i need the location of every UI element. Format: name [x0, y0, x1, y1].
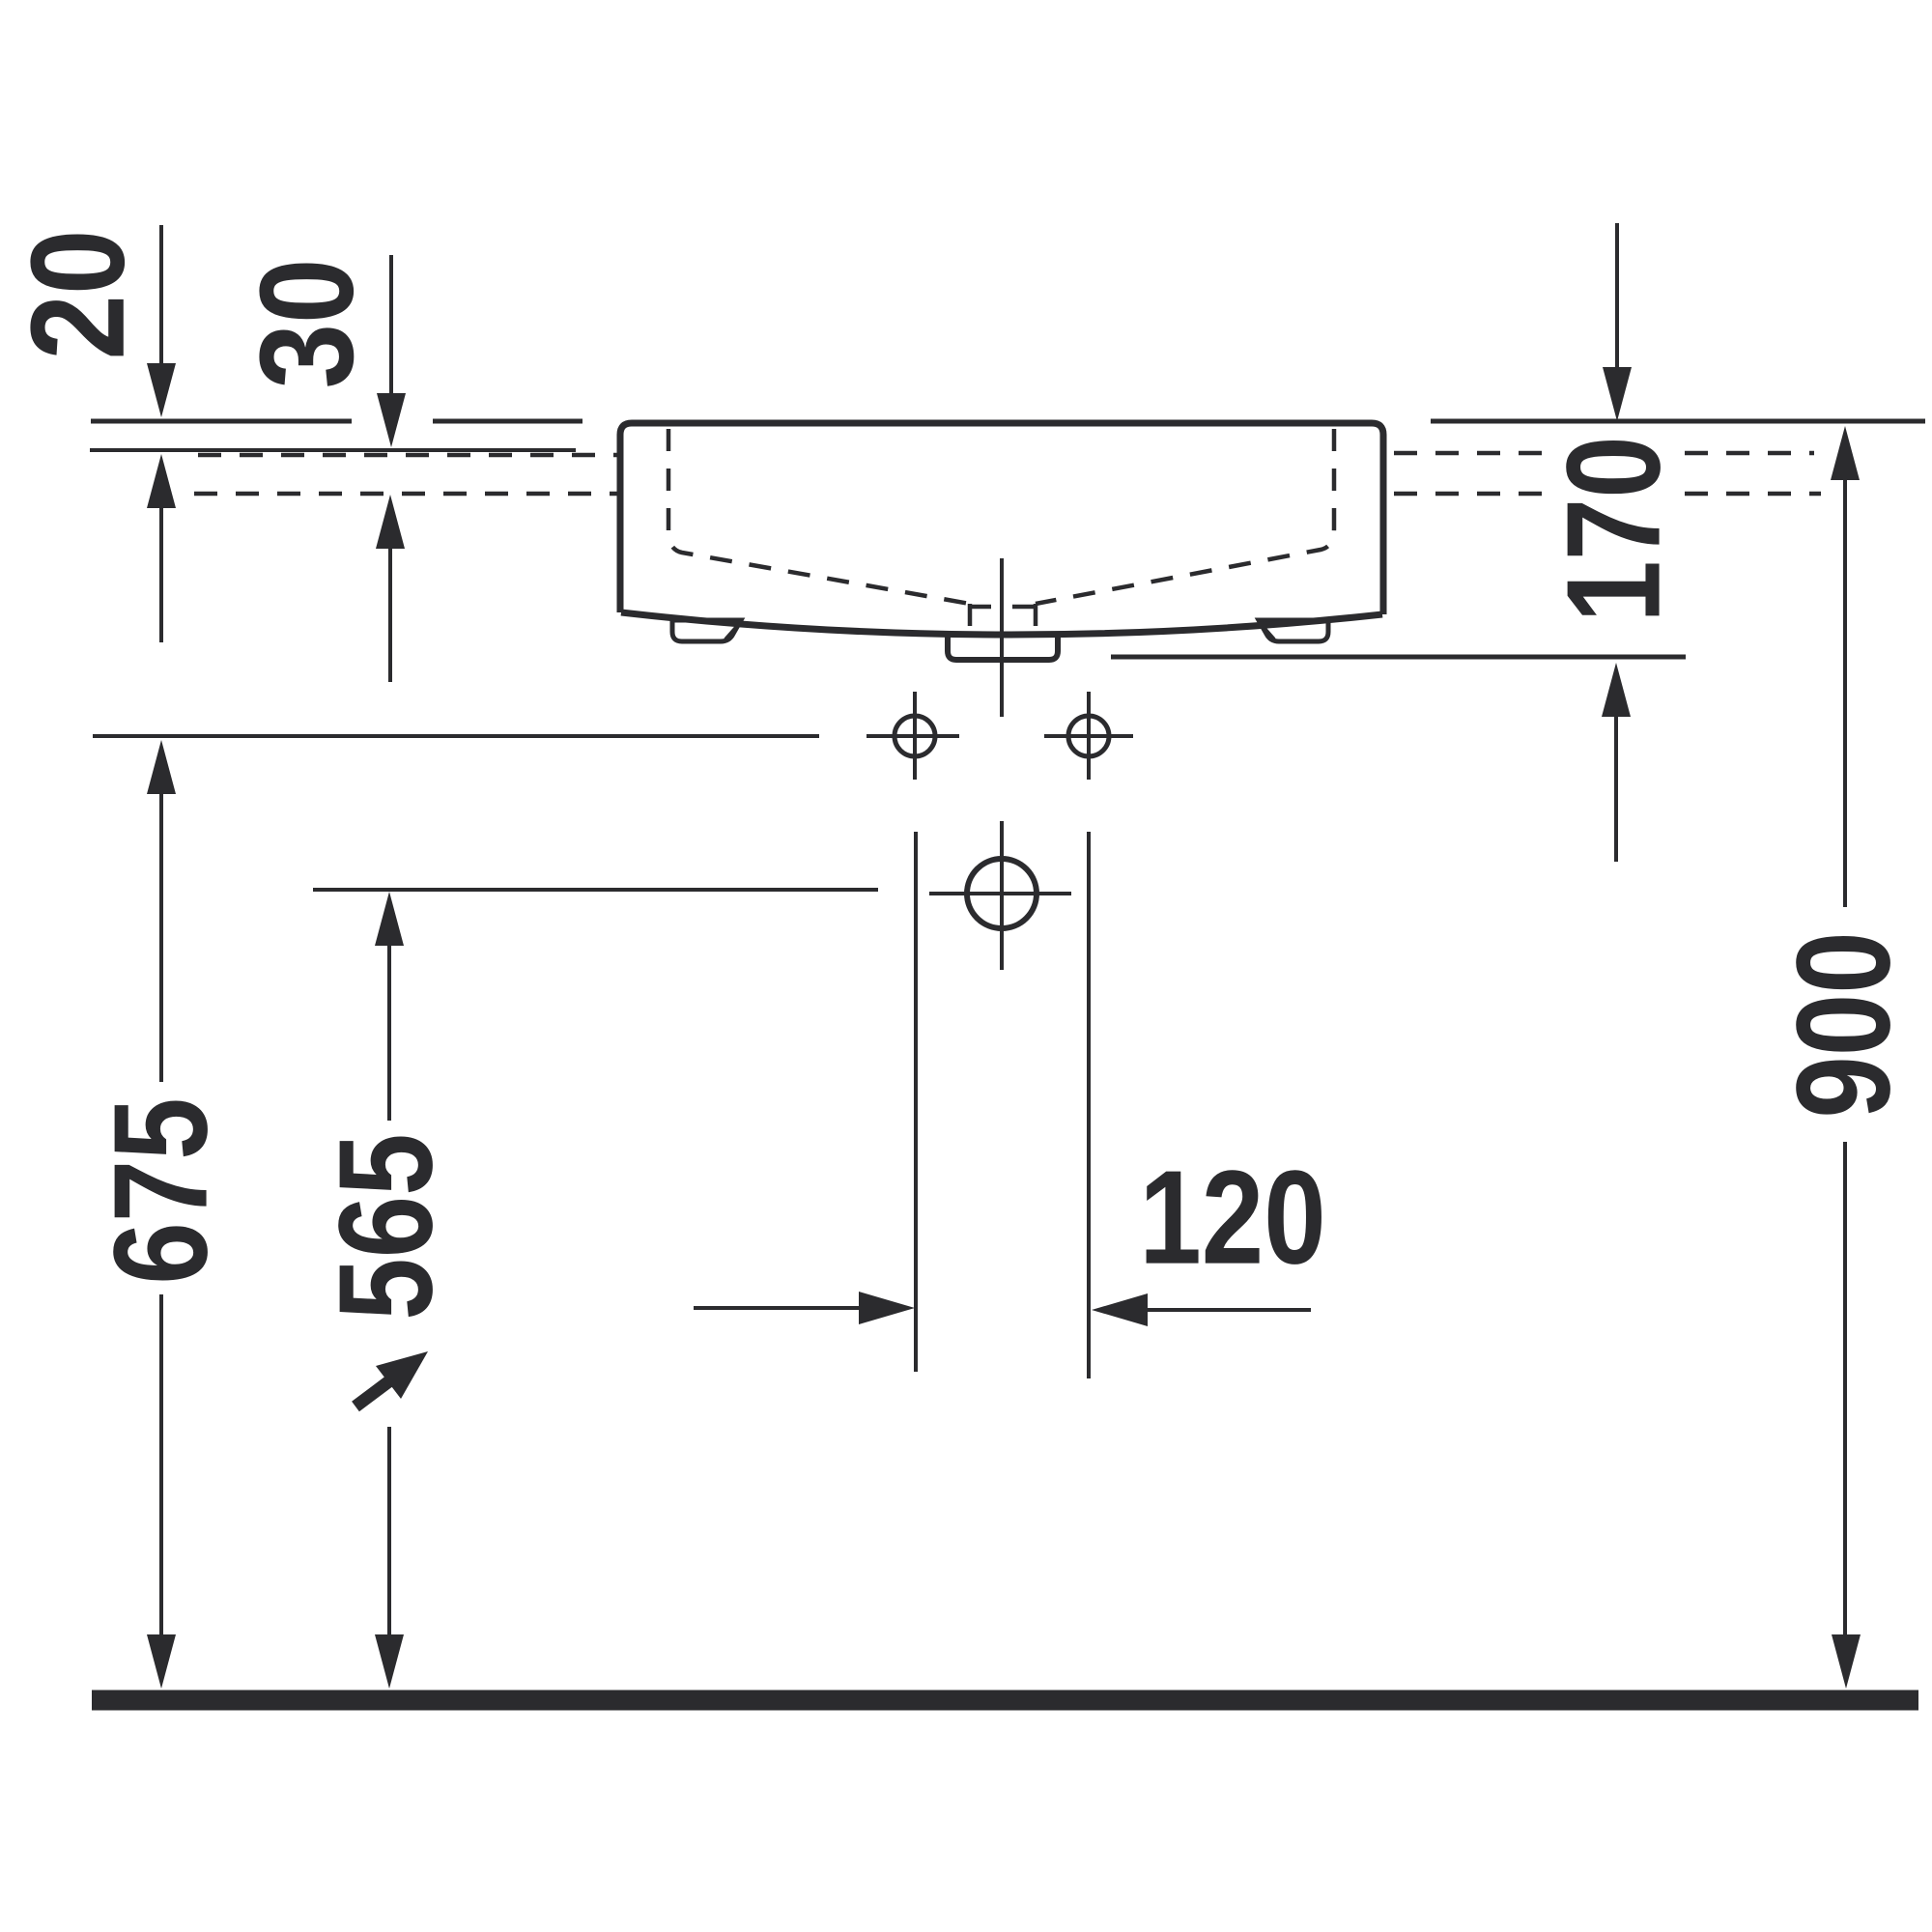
- drain outlet cross horizontal: [929, 892, 1071, 895]
- wire: top rim reference line A left segment 2: [433, 419, 582, 424]
- dimension 20 lower tail: [159, 506, 163, 642]
- dimension 20 up arrowhead: [147, 454, 176, 508]
- wire: countertop line B left: [90, 448, 576, 452]
- dimension 565 lower line: [387, 1427, 391, 1636]
- svg-text:170: 170: [1540, 436, 1689, 622]
- svg-text:30: 30: [231, 258, 381, 388]
- dimension 120 right extension line: [1087, 832, 1091, 1378]
- dimension 170 upper line: [1615, 223, 1619, 369]
- wire: faucet height reference line C: [93, 734, 819, 738]
- wire: top rim reference line A right segment: [1431, 419, 1925, 424]
- dimension 30 upper line: [389, 255, 393, 396]
- wire: dashed hidden line left upper: [198, 453, 619, 458]
- centerline through drain box: [1000, 558, 1004, 717]
- wire: basin underside reference line E: [1111, 655, 1686, 660]
- dimension 170 lower tail: [1614, 715, 1618, 862]
- dimension 120 left extension line: [914, 832, 918, 1372]
- dimension 900 up arrowhead: [1831, 426, 1860, 480]
- svg-text:120: 120: [1139, 1144, 1325, 1293]
- faucet hole left cross vertical: [913, 692, 917, 780]
- wire: top rim reference line A left segment 1: [91, 419, 352, 424]
- dimension 120 right line: [1144, 1308, 1311, 1312]
- washbasin drain box: [948, 632, 1058, 660]
- svg-text:675: 675: [87, 1097, 236, 1284]
- svg-text:20: 20: [2, 229, 152, 359]
- dimension 20 down arrowhead: [147, 363, 176, 417]
- washbasin right foot inner edge: [1260, 623, 1274, 639]
- dimension 900 upper line: [1843, 478, 1847, 907]
- washbasin bottom curve: [621, 612, 1382, 635]
- dimension 900 lower line: [1843, 1142, 1847, 1636]
- dimension 170 up arrowhead: [1602, 663, 1631, 717]
- faucet hole right cross horizontal: [1044, 734, 1133, 738]
- dimension 675 lower line: [159, 1294, 163, 1636]
- dimension 30 down arrowhead: [377, 393, 406, 447]
- label 170 halo: [1557, 431, 1671, 620]
- faucet hole left circle: [895, 716, 935, 756]
- dimension 565 down arrowhead: [375, 1634, 404, 1689]
- drain outlet cross vertical: [1000, 821, 1004, 970]
- dashed drain sump top: [970, 605, 1036, 610]
- dimension 675 up arrowhead: [147, 740, 176, 794]
- washbasin left foot: [672, 620, 741, 641]
- svg-text:565: 565: [312, 1133, 461, 1320]
- wire: dashed hidden line right lower: [1394, 492, 1821, 497]
- dimension 120 left arrowhead pointing left: [1092, 1293, 1148, 1326]
- faucet hole left cross horizontal: [867, 734, 959, 738]
- dimension 120 left line: [694, 1306, 863, 1310]
- dimension 675 upper tail: [159, 792, 163, 1082]
- adjustability bent arrow shaft: [355, 1380, 390, 1406]
- dimension 565 up arrowhead: [375, 892, 404, 946]
- adjustability bent arrow head: [376, 1351, 428, 1399]
- dashed inner bowl left wall: [668, 429, 970, 604]
- drain outlet circle: [967, 859, 1037, 928]
- washbasin left foot inner edge: [725, 623, 740, 639]
- dimension 120 right arrowhead pointing right: [859, 1292, 915, 1324]
- svg-text:900: 900: [1770, 931, 1918, 1118]
- wire: dashed hidden line left lower: [194, 492, 619, 497]
- dimension 170 down arrowhead: [1603, 367, 1632, 421]
- washbasin body outline: [620, 423, 1383, 614]
- dimension 20 upper line: [159, 225, 163, 367]
- dimension 30 up arrowhead: [376, 495, 405, 549]
- faucet hole right cross vertical: [1087, 692, 1091, 780]
- wire: drain height reference line D: [313, 888, 878, 892]
- dimension 30 lower tail: [388, 547, 392, 682]
- dashed drain sump right side: [1034, 604, 1038, 629]
- washbasin right foot: [1259, 620, 1328, 641]
- wire: dashed hidden line right upper: [1394, 451, 1814, 456]
- dimension 565 upper tail: [387, 944, 391, 1121]
- dimension 900 down arrowhead: [1832, 1634, 1861, 1689]
- dimension 675 down arrowhead: [147, 1634, 176, 1689]
- faucet hole right circle: [1068, 716, 1109, 756]
- floor line: [92, 1690, 1918, 1711]
- dashed inner bowl right wall: [1036, 429, 1334, 604]
- dashed drain sump left side: [968, 604, 973, 629]
